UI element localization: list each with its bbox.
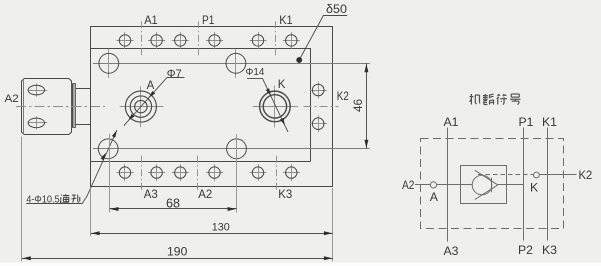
svg-text:K1: K1	[542, 115, 557, 129]
svg-text:K: K	[530, 180, 539, 194]
svg-text:A2: A2	[198, 189, 212, 201]
svg-text:A1: A1	[144, 15, 158, 27]
svg-text:K2: K2	[337, 91, 349, 103]
svg-text:46: 46	[353, 99, 365, 112]
svg-text:K1: K1	[279, 15, 293, 27]
svg-text:190: 190	[167, 244, 188, 258]
svg-text:P1: P1	[519, 115, 534, 129]
svg-text:Φ7: Φ7	[167, 68, 182, 80]
svg-text:A3: A3	[444, 244, 459, 258]
svg-text:A2: A2	[5, 93, 19, 105]
svg-text:δ50: δ50	[326, 2, 347, 16]
svg-text:A: A	[147, 80, 155, 92]
svg-text:68: 68	[166, 196, 180, 210]
svg-text:A2: A2	[402, 180, 415, 192]
svg-text:A: A	[430, 190, 439, 204]
svg-text:K2: K2	[579, 168, 593, 182]
svg-text:A1: A1	[444, 115, 459, 129]
svg-text:A3: A3	[144, 189, 158, 201]
svg-text:K: K	[278, 79, 286, 91]
svg-text:K3: K3	[278, 189, 292, 201]
svg-text:P1: P1	[202, 15, 214, 27]
svg-text:Φ14: Φ14	[246, 67, 265, 78]
svg-text:K3: K3	[542, 243, 557, 257]
svg-text:130: 130	[212, 221, 230, 233]
svg-text:P2: P2	[518, 243, 533, 257]
